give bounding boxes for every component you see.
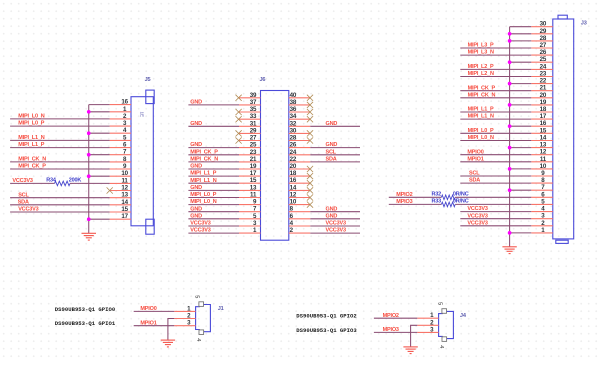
wire VCC3V3 to J6 pin 1 — [188, 232, 239, 234]
J6 pin 19 — [239, 163, 261, 170]
svg-text:15: 15 — [121, 206, 128, 213]
no-connect J6 pin 14 — [307, 187, 313, 193]
svg-text:VCC3V3: VCC3V3 — [12, 178, 32, 184]
wire J3 GND rail — [510, 27, 532, 247]
svg-text:10: 10 — [121, 170, 128, 177]
wire MIPI_L0_N to J3 pin 14 — [460, 140, 531, 142]
svg-text:GND: GND — [190, 100, 202, 106]
svg-text:17: 17 — [121, 213, 128, 220]
no-connect J6 pin 39 — [236, 95, 242, 101]
J5 pin 8 — [110, 156, 131, 163]
wire MIPI_CK_N to J6 pin 21 — [188, 161, 239, 163]
svg-text:13: 13 — [250, 184, 257, 191]
J6 pin 25 — [239, 142, 261, 149]
svg-text:31: 31 — [250, 120, 257, 127]
J3 pin 12 — [531, 149, 553, 156]
svg-text:MIPI_L1_N: MIPI_L1_N — [190, 178, 216, 184]
J3 pin 10 — [531, 163, 553, 170]
wire GND to J6 pin 13 — [188, 189, 239, 191]
wire J3 pin 16 to GND rail — [510, 125, 532, 127]
J5 pin 4 — [110, 127, 131, 134]
svg-text:21: 21 — [540, 85, 547, 92]
J6 pin 1 — [239, 227, 261, 234]
wire VCC3V3 to J3 pin 4 — [460, 211, 531, 213]
no-connect J6 pin 33 — [236, 116, 242, 122]
svg-text:MIPI_CK_N: MIPI_CK_N — [18, 157, 46, 163]
J6 pin 33 — [239, 113, 261, 120]
resistor R33 0R/NC — [431, 198, 468, 206]
no-connect J6 pin 36 — [307, 109, 313, 115]
wire MIPI_L3_P to J3 pin 27 — [460, 47, 531, 49]
J3 pin 21 — [531, 85, 553, 92]
svg-text:VCC3V3: VCC3V3 — [326, 228, 346, 234]
wire VCC3V3 to J6 pin 2 — [310, 232, 360, 234]
svg-text:40: 40 — [290, 92, 297, 99]
wire J3 pin 19 to GND rail — [510, 104, 532, 106]
wire MIPI_L0_P to J3 pin 15 — [460, 132, 531, 134]
svg-text:37: 37 — [250, 99, 257, 106]
svg-text:SDA: SDA — [18, 199, 29, 205]
wire VCC3V3 to J3 pin 2 — [460, 225, 531, 227]
J3 pin 5 — [531, 198, 553, 205]
ground (J1) — [161, 340, 175, 347]
svg-text:VCC3V3: VCC3V3 — [467, 220, 487, 226]
wire MIPI_CK_P to J6 pin 23 — [188, 154, 239, 156]
J6 pin 18 — [289, 170, 311, 177]
svg-text:13: 13 — [540, 142, 547, 149]
J6 pin 26 — [289, 142, 311, 149]
svg-text:15: 15 — [250, 177, 257, 184]
svg-text:20: 20 — [290, 163, 297, 170]
wire MIPI_L1_P to J6 pin 17 — [188, 175, 239, 177]
wire VCC3V3 to J3 pin 3 — [460, 218, 531, 220]
svg-text:MIPI_L1_N: MIPI_L1_N — [18, 135, 44, 141]
junction J3 pin 25 — [508, 60, 512, 64]
wire J5 pin 7 to GND rail — [89, 154, 110, 156]
J6 pin 3 — [239, 220, 261, 227]
wire SDA to J3 pin 8 — [460, 182, 531, 184]
J5 pin 3 — [110, 120, 131, 127]
svg-text:28: 28 — [290, 135, 297, 142]
svg-text:J3: J3 — [581, 21, 587, 27]
wire J3 pin 10 to GND rail — [510, 168, 532, 170]
connector J4 body — [437, 302, 467, 348]
svg-text:GND: GND — [190, 121, 202, 127]
J5 pin 13 — [110, 192, 131, 199]
svg-text:11: 11 — [250, 192, 257, 199]
J3 pin 28 — [531, 35, 553, 42]
J6 pin 2 — [289, 227, 311, 234]
svg-text:MIPI_L0_N: MIPI_L0_N — [190, 199, 216, 205]
svg-text:19: 19 — [250, 163, 257, 170]
svg-text:MPIO2: MPIO2 — [396, 192, 412, 198]
junction J3 pin 28 — [508, 39, 512, 43]
resistor R34 200K — [46, 177, 81, 185]
wire MIPI_L1_N to J3 pin 17 — [460, 118, 531, 120]
J5 pin 2 — [110, 113, 131, 120]
svg-text:16: 16 — [290, 177, 297, 184]
svg-text:24: 24 — [540, 63, 547, 70]
J4 pin 2 — [417, 319, 438, 326]
J3 pin 1 — [531, 227, 553, 234]
svg-text:GND: GND — [190, 213, 202, 219]
svg-text:22: 22 — [540, 78, 547, 85]
svg-text:15: 15 — [540, 127, 547, 134]
J3 pin 27 — [531, 42, 553, 49]
svg-text:MIPI_L0_N: MIPI_L0_N — [18, 114, 44, 120]
svg-text:18: 18 — [290, 170, 297, 177]
J6 pin 36 — [289, 106, 311, 113]
svg-text:0R/NC: 0R/NC — [453, 198, 469, 204]
wire R33 to J3 pin 5 — [455, 203, 531, 205]
J3 pin 19 — [531, 99, 553, 106]
wire GND to J6 pin 37 — [188, 104, 239, 106]
J3 pin 6 — [531, 191, 553, 198]
J3 pin 13 — [531, 142, 553, 149]
svg-text:22: 22 — [290, 156, 297, 163]
ground (J5) — [82, 233, 97, 240]
J3 pin 9 — [531, 170, 553, 177]
svg-text:MIPI_CK_P: MIPI_CK_P — [190, 149, 218, 155]
J6 pin 35 — [239, 106, 261, 113]
no-connect J6 pin 18 — [307, 173, 313, 179]
J3 pin 29 — [531, 28, 553, 35]
svg-text:14: 14 — [290, 184, 297, 191]
wire MIPI_L2_N to J3 pin 23 — [460, 76, 531, 78]
wire J5 pin 17 to GND rail — [89, 218, 110, 220]
svg-text:J5: J5 — [145, 77, 151, 83]
J5 pin 9 — [110, 163, 131, 170]
J5 pin 15 — [110, 206, 131, 213]
svg-text:11: 11 — [540, 156, 547, 163]
ground (J3) — [502, 247, 516, 254]
J5 pin 14 — [110, 199, 131, 206]
wire MIPI_CK_P to J3 pin 21 — [460, 90, 531, 92]
svg-text:DS90UB953-Q1 GPIO1: DS90UB953-Q1 GPIO1 — [55, 320, 116, 327]
wire J3 pin 29 to GND rail — [510, 33, 532, 35]
svg-text:MIPI_L1_P: MIPI_L1_P — [190, 171, 216, 177]
connector J3 body — [553, 15, 574, 243]
svg-text:MIPI_L2_N: MIPI_L2_N — [468, 71, 494, 77]
J6 pin 22 — [289, 156, 311, 163]
wire MIPI_CK_N to J3 pin 20 — [460, 97, 531, 99]
wire MIPI_L1_N to J5 pin 5 — [10, 139, 110, 141]
wire J3 pin 22 to GND rail — [510, 83, 532, 85]
wire GND to J6 pin 26 — [310, 147, 360, 149]
wire MIPI_L1_P to J5 pin 6 — [10, 147, 110, 149]
wire R34 to J5 pin 11 — [70, 182, 110, 184]
wire MIPI_L3_N to J3 pin 26 — [460, 54, 531, 56]
wire VCC3V3 to J5 pin 15 — [10, 211, 110, 213]
ground (J4) — [403, 347, 417, 354]
J3 pin 17 — [531, 113, 553, 120]
wire GND to J6 pin 25 — [188, 147, 239, 149]
no-connect J5 pin 12 — [107, 187, 113, 193]
svg-text:J6: J6 — [260, 77, 266, 83]
wire J3 pin 28 to GND rail — [510, 40, 532, 42]
no-connect J6 pin 28 — [307, 137, 313, 143]
junction J3 pin 29 — [508, 32, 512, 36]
wire GND to J6 pin 7 — [188, 211, 239, 213]
J3 pin 18 — [531, 106, 553, 113]
resistor R32 0R/NC — [431, 191, 468, 199]
connector J1 body — [194, 295, 224, 341]
J6 pin 9 — [239, 199, 261, 206]
svg-text:29: 29 — [250, 127, 257, 134]
junction J3 pin 13 — [508, 146, 512, 150]
J3 pin 8 — [531, 177, 553, 184]
svg-text:VCC3V3: VCC3V3 — [467, 206, 487, 212]
svg-text:GND: GND — [190, 164, 202, 170]
J1 pin 2 — [174, 313, 195, 320]
svg-text:24: 24 — [290, 149, 297, 156]
J3 pin 22 — [531, 78, 553, 85]
wire MIPI_CK_P to J5 pin 9 — [10, 168, 110, 170]
svg-text:GND: GND — [326, 142, 338, 148]
J6 pin 20 — [289, 163, 311, 170]
J6 pin 21 — [239, 156, 261, 163]
no-connect J6 pin 16 — [307, 180, 313, 186]
wire R32 to J3 pin 6 — [455, 196, 531, 198]
svg-text:29: 29 — [540, 28, 547, 35]
wire VCC3V3 to J6 pin 4 — [310, 225, 360, 227]
svg-text:12: 12 — [290, 192, 297, 199]
wire VCC3V3 to R34 — [10, 182, 54, 184]
wire J3 pin 7 to GND rail — [510, 189, 532, 191]
svg-text:21: 21 — [250, 156, 257, 163]
svg-text:30: 30 — [290, 127, 297, 134]
junction J3 pin 19 — [508, 103, 512, 107]
wire MIPI_L2_P to J3 pin 24 — [460, 68, 531, 70]
wire SCL to J3 pin 9 — [460, 175, 531, 177]
wire MIPI_L1_N to J6 pin 15 — [188, 182, 239, 184]
svg-text:27: 27 — [540, 42, 547, 49]
svg-text:VCC3V3: VCC3V3 — [326, 221, 346, 227]
J5 pin 12 — [110, 185, 131, 192]
svg-text:32: 32 — [290, 120, 297, 127]
J3 pin 25 — [531, 56, 553, 63]
svg-text:GND: GND — [190, 206, 202, 212]
wire J3 pin 25 to GND rail — [510, 61, 532, 63]
no-connect J6 pin 29 — [236, 130, 242, 136]
J3 pin 3 — [531, 213, 553, 220]
J6 pin 13 — [239, 184, 261, 191]
svg-text:GND: GND — [190, 185, 202, 191]
svg-text:28: 28 — [540, 35, 547, 42]
wire GND to J6 pin 8 — [310, 211, 360, 213]
svg-text:19: 19 — [540, 99, 547, 106]
wire MPIO2 to R32 — [389, 196, 442, 198]
svg-text:GND: GND — [326, 213, 338, 219]
J6 pin 6 — [289, 213, 311, 220]
svg-text:30: 30 — [540, 21, 547, 28]
J6 pin 38 — [289, 99, 311, 106]
no-connect J6 pin 40 — [307, 95, 313, 101]
wire J5 pin 10 to GND rail — [89, 175, 110, 177]
J3 pin 11 — [531, 156, 553, 163]
wire SDA to J5 pin 14 — [10, 204, 110, 206]
J6 pin 8 — [289, 206, 311, 213]
J6 pin 37 — [239, 99, 261, 106]
J6 pin 16 — [289, 177, 311, 184]
svg-text:VCC3V3: VCC3V3 — [190, 221, 210, 227]
svg-text:5: 5 — [437, 302, 443, 305]
svg-text:17: 17 — [540, 113, 547, 120]
svg-text:0R/NC: 0R/NC — [453, 191, 469, 197]
J5 pin 1 — [110, 106, 131, 113]
J3 pin 7 — [531, 184, 553, 191]
J5 pin 6 — [110, 142, 131, 149]
J6 pin 11 — [239, 192, 261, 199]
J6 pin 28 — [289, 135, 311, 142]
svg-text:23: 23 — [540, 71, 547, 78]
svg-text:MIPI_L0_P: MIPI_L0_P — [468, 128, 494, 134]
J1 pin 1 — [174, 305, 195, 312]
junction J3 pin 22 — [508, 82, 512, 86]
svg-text:16: 16 — [540, 120, 547, 127]
svg-text:11: 11 — [122, 177, 129, 184]
no-connect J6 pin 35 — [236, 109, 242, 115]
wire J5 pin 1 to GND rail — [89, 111, 110, 113]
J6 pin 10 — [289, 199, 311, 206]
J1 pin 3 — [174, 320, 195, 327]
J6 pin 30 — [289, 127, 311, 134]
wire J3 pin 1 to GND rail — [510, 232, 532, 234]
junction J5 pin 10 — [87, 174, 91, 178]
J5 pin 7 — [110, 149, 131, 156]
no-connect J6 pin 10 — [307, 202, 313, 208]
svg-text:MPIO3: MPIO3 — [396, 199, 412, 205]
J5 pin 5 — [110, 134, 131, 141]
svg-text:20: 20 — [540, 92, 547, 99]
wire GND to J6 pin 6 — [310, 218, 360, 220]
svg-text:38: 38 — [290, 99, 297, 106]
svg-text:18: 18 — [540, 106, 547, 113]
wire SCL to J6 pin 24 — [310, 154, 360, 156]
junction J5 pin 1 — [87, 110, 91, 114]
connector J6 body — [261, 91, 289, 241]
wire J3 pin 13 to GND rail — [510, 147, 532, 149]
wire J1 pin 2 to ground — [168, 319, 174, 341]
svg-text:MIPI_CK_P: MIPI_CK_P — [18, 164, 46, 170]
svg-text:MPIO1: MPIO1 — [140, 320, 156, 326]
svg-text:34: 34 — [290, 113, 297, 120]
junction J3 pin 1 — [508, 231, 512, 235]
junction J3 pin 16 — [508, 124, 512, 128]
wire GND to J6 pin 19 — [188, 168, 239, 170]
wire MIPI_L0_N to J6 pin 9 — [188, 204, 239, 206]
wire MIPI_L0_P to J5 pin 3 — [10, 125, 110, 127]
svg-text:27: 27 — [250, 135, 257, 142]
svg-text:10: 10 — [540, 163, 547, 170]
svg-text:MIPI_L1_P: MIPI_L1_P — [468, 107, 494, 113]
J6 pin 39 — [239, 92, 261, 99]
J3 pin 14 — [531, 135, 553, 142]
junction J3 pin 7 — [508, 188, 512, 192]
J6 pin 12 — [289, 192, 311, 199]
J6 pin 7 — [239, 206, 261, 213]
svg-text:12: 12 — [121, 185, 128, 192]
junction J3 pin 10 — [508, 167, 512, 171]
wire MPIO2 to J4 pin 1 — [374, 317, 417, 319]
wire MIPI_L0_P to J6 pin 11 — [188, 197, 239, 199]
connector J5 body — [131, 90, 154, 234]
J6 pin 32 — [289, 120, 311, 127]
J3 pin 23 — [531, 71, 553, 78]
svg-text:MIPI_L0_P: MIPI_L0_P — [18, 121, 44, 127]
junction J5 pin 17 — [87, 217, 91, 221]
svg-text:MIPI_CK_P: MIPI_CK_P — [468, 85, 496, 91]
no-connect J6 pin 38 — [307, 102, 313, 108]
svg-text:33: 33 — [250, 113, 257, 120]
J6 pin 31 — [239, 120, 261, 127]
J6 pin 23 — [239, 149, 261, 156]
svg-text:DS90UB953-Q1 GPIO2: DS90UB953-Q1 GPIO2 — [296, 313, 357, 320]
svg-text:14: 14 — [540, 135, 547, 142]
J6 pin 27 — [239, 135, 261, 142]
J4 pin 1 — [417, 312, 438, 319]
svg-text:200K: 200K — [69, 177, 82, 183]
svg-text:DS90UB953-Q1 GPIO3: DS90UB953-Q1 GPIO3 — [296, 327, 357, 334]
wire SDA to J6 pin 22 — [310, 161, 360, 163]
svg-text:MIPI_L0_P: MIPI_L0_P — [190, 192, 216, 198]
svg-text:MIPI_L1_N: MIPI_L1_N — [468, 114, 494, 120]
J4 pin 3 — [417, 326, 438, 333]
J3 pin 24 — [531, 63, 553, 70]
J5 pin 10 — [110, 170, 131, 177]
svg-text:MPIO0: MPIO0 — [467, 149, 483, 155]
wire MIPI_L0_N to J5 pin 2 — [10, 118, 110, 120]
wire MPIO1 to J3 pin 11 — [460, 161, 531, 163]
svg-text:R33: R33 — [431, 198, 441, 204]
J3 pin 30 — [531, 21, 553, 28]
svg-text:MPIO0: MPIO0 — [140, 306, 156, 312]
wire SCL to J5 pin 13 — [10, 197, 110, 199]
svg-text:VCC3V3: VCC3V3 — [190, 228, 210, 234]
svg-text:26: 26 — [290, 142, 297, 149]
J6 pin 15 — [239, 177, 261, 184]
svg-text:MPIO1: MPIO1 — [467, 156, 483, 162]
J6 pin 5 — [239, 213, 261, 220]
wire MPIO3 to J4 pin 3 — [374, 331, 417, 333]
wire MPIO3 to R33 — [389, 203, 442, 205]
wire MPIO0 to J1 pin 1 — [134, 310, 175, 312]
svg-text:4: 4 — [195, 338, 201, 341]
svg-text:MPIO2: MPIO2 — [383, 313, 399, 319]
J3 pin 4 — [531, 206, 553, 213]
svg-text:13: 13 — [121, 192, 128, 199]
svg-text:VCC3V3: VCC3V3 — [467, 213, 487, 219]
wire J5 GND rail — [89, 105, 110, 234]
svg-text:MIPI_L3_P: MIPI_L3_P — [468, 43, 494, 49]
svg-text:MIPI_CK_N: MIPI_CK_N — [190, 157, 218, 163]
svg-text:MPIO3: MPIO3 — [383, 327, 399, 333]
wire MPIO1 to J1 pin 3 — [134, 325, 175, 327]
svg-text:10: 10 — [290, 199, 297, 206]
wire MIPI_L1_P to J3 pin 18 — [460, 111, 531, 113]
wire GND to J6 pin 32 — [310, 125, 360, 127]
no-connect J6 pin 30 — [307, 130, 313, 136]
svg-text:16: 16 — [121, 99, 128, 106]
J3 pin 2 — [531, 220, 553, 227]
svg-text:SCL: SCL — [469, 171, 480, 177]
svg-text:17: 17 — [250, 170, 257, 177]
svg-text:MIPI_CK_N: MIPI_CK_N — [468, 92, 496, 98]
svg-text:J1: J1 — [218, 306, 224, 312]
svg-text:25: 25 — [250, 142, 257, 149]
svg-text:36: 36 — [290, 106, 297, 113]
svg-text:R32: R32 — [431, 191, 441, 197]
